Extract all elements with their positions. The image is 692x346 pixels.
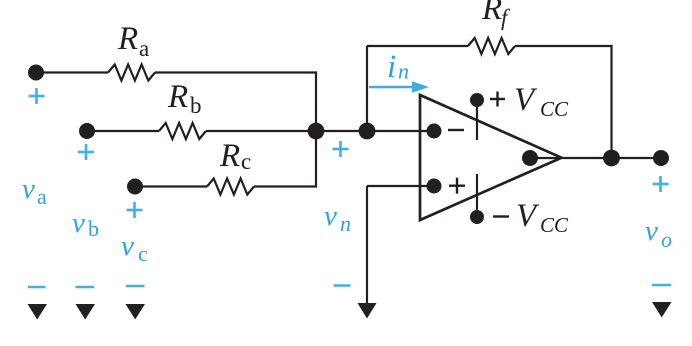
svg-text:v: v	[324, 200, 337, 232]
wire feedback left segment	[367, 45, 468, 47]
polarity plus c	[127, 202, 143, 218]
svg-text:CC: CC	[540, 97, 569, 121]
svg-text:R: R	[167, 79, 188, 115]
label Rf	[481, 0, 511, 30]
wire noninverting input to ground	[366, 186, 368, 306]
svg-text:v: v	[72, 207, 85, 239]
label vc	[121, 230, 148, 266]
ground arrow for vn wire	[358, 303, 377, 319]
-VCC pin dot	[470, 210, 484, 224]
label vb	[72, 207, 99, 241]
svg-text:v: v	[121, 230, 134, 262]
op-amp plus sign noninverting input	[449, 178, 465, 194]
resistor Rb	[159, 123, 206, 139]
wire Rc to node A with corner up	[254, 131, 316, 187]
polarity minus c	[126, 285, 145, 288]
wire feedback right segment with corner down to output	[515, 46, 612, 158]
terminal c dot	[127, 179, 143, 195]
wire Rb to inverting input	[206, 130, 434, 132]
svg-text:v: v	[22, 173, 35, 205]
label in	[387, 49, 409, 85]
wire output	[530, 157, 661, 159]
ground marker c	[126, 304, 146, 320]
op-amp U1 triangle	[420, 95, 562, 220]
svg-text:o: o	[661, 227, 672, 252]
label vn	[324, 200, 351, 236]
op-amp +VCC supply lead	[476, 100, 478, 140]
resistor Rf	[468, 38, 515, 54]
label Rc	[219, 138, 251, 174]
noninverting input pin dot	[427, 179, 442, 194]
node A junction dot	[308, 123, 325, 140]
polarity plus vn	[333, 141, 349, 157]
output pin dot	[522, 150, 538, 166]
polarity minus a	[28, 286, 46, 289]
polarity plus a	[29, 88, 45, 104]
terminal b dot	[79, 123, 95, 139]
wire input c horizontal	[135, 185, 207, 187]
label +VCC	[490, 92, 505, 107]
svg-text:a: a	[139, 36, 149, 61]
wire noninverting input	[367, 185, 434, 187]
svg-text:v: v	[645, 215, 658, 247]
terminal vo dot	[653, 150, 669, 166]
svg-text:c: c	[138, 241, 148, 266]
svg-text:n: n	[398, 59, 409, 84]
svg-text:V: V	[514, 82, 538, 118]
terminal a dot	[28, 65, 44, 81]
output junction dot	[603, 150, 620, 167]
svg-text:R: R	[481, 0, 502, 27]
polarity plus vo	[653, 176, 669, 192]
resistor Rc	[207, 179, 254, 195]
svg-text:a: a	[37, 184, 47, 209]
inverting input pin dot	[427, 124, 442, 139]
current arrow in	[369, 81, 429, 92]
resistor Ra	[108, 65, 155, 81]
wire input b horizontal	[87, 130, 159, 132]
label Rb	[167, 79, 202, 118]
wire node B up to feedback	[366, 46, 368, 131]
wire input a horizontal	[36, 71, 108, 73]
ground marker b	[76, 304, 96, 320]
svg-text:c: c	[241, 149, 251, 174]
label va	[22, 173, 47, 209]
label Ra	[117, 21, 149, 61]
polarity plus b	[78, 144, 94, 160]
label vo	[645, 215, 672, 252]
polarity minus vn	[334, 284, 351, 287]
op-amp minus sign inverting input	[448, 129, 464, 131]
polarity minus b	[76, 286, 95, 289]
ground marker o	[652, 302, 672, 318]
svg-text:n: n	[340, 211, 351, 236]
wire Ra to node A with corner down	[155, 73, 316, 132]
svg-text:b: b	[190, 93, 202, 118]
svg-text:f: f	[501, 5, 511, 30]
svg-text:V: V	[516, 198, 540, 234]
polarity minus vo	[652, 284, 671, 287]
op-amp -VCC supply lead	[476, 174, 478, 217]
svg-text:b: b	[88, 216, 99, 241]
ground marker a	[28, 304, 48, 320]
svg-text:CC: CC	[540, 213, 569, 237]
svg-text:R: R	[117, 21, 138, 57]
svg-text:i: i	[387, 49, 396, 85]
svg-text:R: R	[219, 138, 240, 174]
+VCC pin dot	[470, 93, 484, 107]
node B junction dot	[359, 123, 376, 140]
label -VCC	[493, 215, 509, 217]
